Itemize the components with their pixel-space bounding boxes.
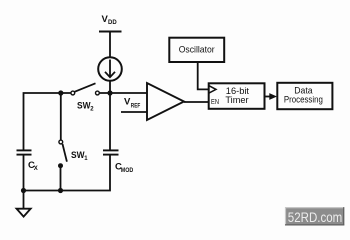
- wire VREF input: [121, 111, 147, 113]
- comparator U1: [147, 83, 184, 120]
- oscillator box: [169, 38, 224, 62]
- svg-text:MOD: MOD: [121, 168, 134, 174]
- data processing box: [277, 83, 332, 109]
- current source I1: [98, 57, 122, 81]
- svg-text:SW: SW: [77, 100, 91, 111]
- svg-text:DD: DD: [108, 20, 117, 26]
- node SW2 left junction: [58, 90, 63, 95]
- capacitor CX: [17, 150, 32, 154]
- node SW1 bottom junction: [58, 188, 63, 193]
- switch SW1: [58, 140, 67, 168]
- switch SW2: [71, 83, 99, 95]
- arrow: [269, 93, 277, 100]
- node main junction: [107, 90, 112, 95]
- svg-text:Oscillator: Oscillator: [179, 45, 216, 56]
- wire timer to data processing: [265, 96, 271, 98]
- capacitor CMOD: [103, 150, 119, 154]
- svg-text:REF: REF: [131, 103, 141, 109]
- wire VDD rail to current source: [109, 32, 111, 58]
- wire SW1 to bottom wire: [60, 166, 62, 191]
- svg-text:Timer: Timer: [225, 95, 249, 106]
- bottom wire: [24, 155, 111, 190]
- wire comparator output: [184, 101, 209, 103]
- svg-text:X: X: [34, 166, 38, 172]
- wire node to SW1: [60, 93, 62, 140]
- node ground junction: [21, 188, 26, 193]
- svg-text:EN: EN: [211, 97, 219, 106]
- wire top-left branch (corner to CX): [24, 93, 71, 150]
- VDD power rail: [99, 31, 122, 33]
- wire node to CMOD: [109, 93, 111, 150]
- clock input symbol: [209, 86, 216, 94]
- wire current source to node: [109, 81, 111, 93]
- svg-text:Processing: Processing: [284, 94, 323, 105]
- timer box U2: [209, 83, 265, 109]
- wire CX bottom: [23, 155, 25, 190]
- wire SW2 to comparator node: [99, 92, 147, 94]
- watermark 52RD.com: [285, 207, 344, 225]
- ground: [17, 209, 31, 217]
- svg-text:52RD.com: 52RD.com: [288, 209, 343, 225]
- svg-text:SW: SW: [71, 150, 85, 161]
- wire to ground: [23, 191, 25, 209]
- wire oscillator to timer clock: [198, 62, 209, 89]
